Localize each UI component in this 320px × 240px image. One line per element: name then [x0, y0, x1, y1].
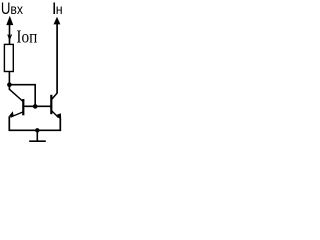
svg-text:Iоп: Iоп [16, 26, 37, 46]
svg-text:вх: вх [10, 1, 23, 17]
svg-text:U: U [1, 0, 11, 18]
svg-text:н: н [56, 1, 63, 17]
